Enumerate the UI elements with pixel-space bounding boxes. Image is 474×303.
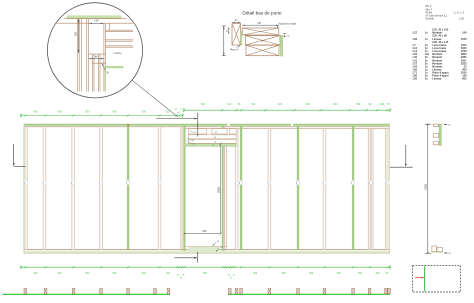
top dimension chain left [20,111,184,118]
detail: left vertical dimension [222,26,226,56]
circle: leader 56 [101,63,109,74]
detail: small dim 45 right [283,34,290,38]
plan view wall line left [3,293,171,295]
svg-text:600: 600 [85,272,90,275]
title block header [426,5,465,20]
svg-text:56: 56 [220,247,222,249]
svg-text:600: 600 [337,272,342,275]
svg-text:600: 600 [58,272,63,275]
svg-text:600: 600 [282,272,287,275]
circle: dimension 139 [89,19,104,24]
svg-text:65: 65 [214,137,216,139]
circle: right notch lines [106,23,134,47]
door left jamb (green) [181,124,186,251]
circle: sill horizontal lines [89,54,106,63]
svg-text:600: 600 [113,111,118,114]
stud left edge montant [24,125,28,254]
door lintel L66 box [188,135,236,139]
svg-text:PLAN:: PLAN: [426,11,434,14]
svg-text:L80: L80 [191,140,194,142]
svg-text:8: 8 [126,183,127,185]
svg-text:8: 8 [268,183,269,185]
svg-text:L71: L71 [192,143,195,145]
svg-text:352: 352 [358,272,363,275]
green joint stud x353 [351,126,355,250]
bottom chain small numbers at door jambs [177,275,236,280]
svg-text:1:20: 1:20 [459,17,464,20]
svg-text:8: 8 [296,183,297,185]
svg-text:56: 56 [214,142,216,144]
svg-text:Pièce A: Pièce A [230,48,239,51]
detail: small dim 95 left [227,27,230,34]
svg-text:600: 600 [309,272,314,275]
green joint stud x128 [126,126,130,250]
svg-text:327: 327 [166,272,171,275]
door height dimension 2083 [217,143,222,235]
svg-text:832: 832 [201,103,206,106]
detail: piece A label [230,45,241,52]
montant stud x159 [157,127,161,249]
red joint marker on plate [127,125,129,127]
wall top plate lower lines [24,127,390,129]
door lintel box upper right [212,129,236,134]
montant stud x73 [71,127,75,249]
svg-text:36: 36 [217,241,219,243]
svg-text:8: 8 [24,183,25,185]
svg-text:230: 230 [376,272,381,275]
header leader labels [187,130,196,145]
svg-text:600: 600 [333,103,338,106]
circle: green sill band [106,66,123,68]
detail: middle cross box 133 [245,36,280,45]
section: bottom profile plates [431,246,443,252]
svg-text:8: 8 [158,183,159,185]
circle: green jamb vertical [104,23,106,91]
svg-text:74: 74 [212,145,214,147]
green joint stud x241 [239,126,243,250]
section arrow top of door [156,113,198,137]
detail: green strip right [280,35,282,56]
svg-text:N° Liste de bois (L): N° Liste de bois (L) [426,14,447,17]
svg-text:430: 430 [33,111,38,114]
svg-text:8: 8 [235,183,236,185]
circle: horizontal line under plate [56,22,133,24]
detail circle outline [47,3,142,98]
section: height dimension 2483 [423,123,431,254]
door bottom leader labels [212,241,222,252]
detail: dim 746 [242,23,279,26]
svg-text:600: 600 [58,111,63,114]
door width dimension 900 [184,230,222,234]
detail: label Ajout piece angle [276,22,296,28]
datum arrow left of wall [13,144,26,167]
svg-text:L64: L64 [193,132,196,134]
svg-text:352: 352 [356,103,361,106]
svg-text:524: 524 [253,272,258,275]
circle: dimension 64 [89,56,104,59]
svg-text:524: 524 [251,103,256,106]
svg-text:600: 600 [85,111,90,114]
svg-text:139: 139 [94,19,99,22]
door sill piece (green) [184,246,227,250]
svg-text:L.Pièce: L.Pièce [114,52,123,55]
wall top plate green band L7 [24,124,390,126]
svg-text:600: 600 [113,272,118,275]
svg-text:430: 430 [33,272,38,275]
svg-text:900: 900 [203,272,208,275]
door lintel L65 box [188,139,236,143]
key plan wall position green line [424,266,426,291]
bottom dimension chain [20,265,391,275]
double stud x369 [368,129,373,250]
section arrow bottom of door [174,252,197,263]
svg-text:8: 8 [43,183,44,185]
svg-text:900: 900 [203,230,208,233]
montant stud x44 [42,127,46,249]
svg-text:8: 8 [323,183,324,185]
stud right edge montant [385,125,389,254]
svg-text:Détail bas de porte: Détail bas de porte [242,10,282,15]
key plan red arrow [415,277,424,279]
green joint stud x298 [296,126,300,250]
door lintel box upper left [188,129,206,134]
montant stud x324 [322,129,326,250]
door header green band [184,144,236,147]
svg-text:8: 8 [386,183,387,185]
svg-text:352: 352 [166,111,171,114]
leader line from circle to door [132,80,178,117]
svg-text:RU 3: RU 3 [426,5,432,8]
circle: dimension 550 vertical [74,19,80,53]
montant stud x236 beside door [235,129,239,250]
svg-text:8: 8 [99,183,100,185]
door right jamb (green) [222,124,227,251]
svg-text:622: 622 [278,103,283,106]
svg-text:600: 600 [306,103,311,106]
svg-text:312: 312 [227,103,232,106]
svg-text:8: 8 [351,183,352,185]
svg-text:8: 8 [369,183,370,185]
montant stud x101 [99,127,103,249]
key plan box [413,265,461,292]
svg-text:205: 205 [380,103,385,106]
plan view stud marks left [24,288,170,293]
svg-text:-1, 0, 1, 3: -1, 0, 1, 3 [453,11,464,14]
svg-text:600: 600 [142,111,147,114]
svg-text:600: 600 [142,272,147,275]
section: top profile plates [433,124,441,145]
parts list table [413,28,467,81]
detail: top slender cross box [242,28,279,35]
svg-text:Mur 7: Mur 7 [426,8,433,11]
top chain small numbers at door [175,109,183,114]
svg-text:65: 65 [215,132,217,134]
detail: dim 47 [232,20,241,23]
top dimension chain right [183,103,391,112]
svg-text:8: 8 [239,183,240,185]
svg-text:Echelle: Echelle [426,17,435,20]
plan view wall line right [228,293,390,295]
datum arrow right of wall [390,145,413,167]
detail: bottom cross box [246,45,279,56]
circle: top plate green band [64,16,127,19]
plan view stud marks right [229,288,391,293]
wall bottom plate (lisse basse) [24,250,390,254]
montant stud x269 [267,129,271,250]
section: top arrow 45 [444,124,452,127]
detail: piece A cross box [232,24,242,45]
circle: stud vertical lines [77,19,100,92]
section: bottom arrow 45 [444,252,452,255]
svg-text:8: 8 [71,183,72,185]
